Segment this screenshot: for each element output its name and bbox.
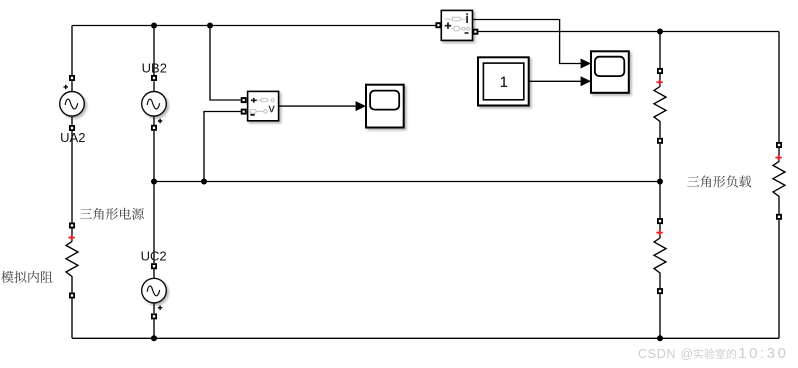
- v block + mark: [251, 98, 257, 103]
- i block input port: [435, 22, 441, 28]
- arrowhead into Scope2 input 2: [581, 76, 591, 86]
- junction node at (154,25.5): [151, 23, 157, 29]
- arrowhead into Scope1: [356, 101, 366, 111]
- annotation 三角形负载 (delta load): [687, 175, 751, 187]
- svg-text:UC2: UC2: [141, 249, 167, 264]
- junction node at (660,181.5): [657, 179, 663, 185]
- svg-text:UA2: UA2: [60, 130, 85, 145]
- wire: middle bus down to resistor R2: [659, 182, 661, 219]
- wire: middle bus: [154, 181, 660, 183]
- wire: far right branch down to resistor R3: [778, 32, 780, 143]
- wire: UB2 bottom to middle bus: [153, 131, 155, 182]
- junction node at (154,181.5): [151, 179, 157, 185]
- constant block value 1: [478, 57, 529, 105]
- AC voltage source UA2: [60, 75, 85, 131]
- wire: voltage measurement output to Scope1: [279, 105, 357, 107]
- junction node at (204,181.5): [201, 179, 207, 185]
- wire: v- measurement tap from middle bus: [204, 112, 241, 182]
- annotation 模拟内阻 (simulated internal resistance): [1, 271, 52, 283]
- i block label i: [466, 16, 468, 23]
- wire: current measurement electrical output to load branches: [478, 31, 779, 33]
- v block label v: [269, 106, 275, 113]
- wire: UA2 branch drop from top bus: [71, 26, 73, 76]
- wire: UC2 bottom to bottom bus: [153, 319, 155, 338]
- wire: UC2 top to middle bus: [153, 182, 155, 264]
- wire: R2 bottom to bottom bus: [659, 294, 661, 338]
- i block + mark: [445, 23, 451, 29]
- wire: left resistor to bottom bus: [71, 299, 73, 339]
- svg-text:CSDN @: CSDN @: [638, 347, 694, 361]
- wire: current signal i to Scope2 input 1: [472, 20, 581, 64]
- current measurement block (i): [441, 10, 472, 40]
- junction node at (210,25.5): [207, 23, 213, 29]
- scope block Scope2 (current + constant): [591, 51, 629, 93]
- scope block Scope1 (voltage): [366, 85, 404, 128]
- AC voltage source UB2: [142, 75, 167, 131]
- voltage measurement block (v): [248, 91, 279, 120]
- wire: UB2 branch drop from top bus: [153, 26, 155, 76]
- arrowhead into Scope2 input 1: [581, 59, 591, 69]
- i block - mark: [465, 32, 469, 34]
- wire: Constant output to Scope2 input 2: [529, 80, 582, 82]
- wire: right branch 1 from output wire down to resistor R1: [659, 32, 661, 69]
- v block input port +: [241, 97, 247, 103]
- wire: bottom bus: [72, 337, 779, 339]
- annotation 三角形电源 (delta power source): [80, 208, 144, 220]
- resistor R3 far right load: [773, 142, 785, 220]
- wire: R1 bottom to middle bus: [659, 144, 661, 182]
- wire: UA2 to internal resistance resistor: [71, 131, 73, 223]
- resistor R internal (left, 模拟内阻): [66, 223, 78, 299]
- resistor R2 load branch bottom: [654, 218, 666, 294]
- watermark CSDN @实验室的10:30: [638, 345, 788, 362]
- svg-text:UB2: UB2: [142, 60, 167, 75]
- junction node at (660,338.3): [657, 335, 663, 341]
- junction node at (660,31.5): [657, 29, 663, 35]
- i block output port: [472, 29, 478, 35]
- v block - mark: [250, 114, 254, 116]
- v block input port -: [241, 109, 247, 115]
- wire: R3 bottom to bottom bus: [778, 220, 780, 338]
- svg-text:10:30: 10:30: [738, 345, 788, 362]
- wire: top bus from UA2 to Current Measurement input: [72, 25, 435, 27]
- resistor R1 load branch top: [654, 68, 666, 144]
- wire: v+ measurement tap from top bus: [210, 26, 241, 101]
- AC voltage source UC2: [142, 263, 167, 319]
- junction node at (154,338.3): [151, 335, 157, 341]
